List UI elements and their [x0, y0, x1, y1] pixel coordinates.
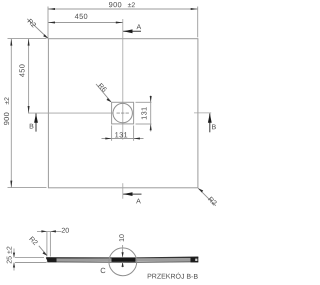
profile drain sump (center dark) [112, 258, 136, 262]
svg-text:10: 10 [119, 234, 126, 242]
horizontal centerline right stub [194, 112, 211, 114]
svg-text:900: 900 [2, 112, 11, 125]
dim 900 top: extension lines [47, 7, 49, 39]
dim 450 left: dimension line [28, 39, 30, 113]
svg-text:A: A [136, 198, 141, 205]
leader R2 section left end [39, 246, 47, 255]
svg-text:450: 450 [17, 64, 26, 77]
svg-text:R2: R2 [27, 236, 38, 247]
leader R2 bottom-right [198, 188, 216, 206]
section arrow A top [123, 30, 141, 32]
profile right foot inner light [195, 259, 197, 261]
svg-text:131: 131 [140, 107, 149, 120]
dim 131 bottom: dimension line [102, 138, 144, 140]
dim 25 +-2 section: extension lines [15, 257, 44, 259]
svg-text:131: 131 [115, 130, 128, 139]
dim 450 left: arrowheads [28, 39, 30, 46]
drain circle [113, 103, 132, 122]
svg-text:±2: ±2 [4, 97, 11, 105]
svg-text:B: B [29, 123, 34, 130]
svg-text:450: 450 [75, 12, 88, 21]
horizontal centerline left segment [28, 112, 113, 114]
SECTION B-B profile top surface line [46, 256, 198, 259]
dim 900 left: arrowheads [10, 39, 12, 46]
profile left foot (thick end) [46, 258, 57, 263]
section arrow B left [35, 114, 37, 132]
svg-text:R2: R2 [26, 18, 37, 29]
svg-text:900: 900 [109, 0, 122, 9]
leader R6 drain corner [96, 84, 111, 102]
dim 900 top: dimension line [48, 8, 198, 10]
profile right foot [191, 257, 199, 262]
dim 20 section: extension lines [46, 232, 48, 257]
dim 900 left: extension lines [8, 38, 47, 40]
svg-text:±2: ±2 [128, 2, 136, 9]
svg-text:B: B [211, 124, 216, 131]
SECTION B-B profile interior [47, 258, 198, 261]
svg-text:C: C [100, 266, 106, 275]
svg-text:20: 20 [61, 228, 69, 235]
leader R2 top-left [27, 19, 47, 38]
dim 131 bottom: extension lines [111, 126, 113, 141]
dim 450 top: dimension line [48, 22, 123, 24]
outer square 900x900 plan view [48, 39, 198, 188]
dim 20 section: arrowheads [41, 230, 47, 232]
dim 900 top: arrowheads [48, 8, 55, 10]
svg-text:R6: R6 [96, 83, 107, 94]
section arrow A bottom [123, 193, 141, 195]
drain recess square 131x131 [112, 102, 134, 124]
dim 10 section: lower line and arrow [122, 262, 124, 267]
dim 25 +-2 section: dimension line and arrows [13, 249, 15, 258]
svg-text:25 ±2: 25 ±2 [7, 246, 14, 264]
section arrow B right [209, 113, 211, 132]
dim 131 right: arrowheads [150, 96, 152, 102]
SECTION B-B profile bottom surface line [47, 261, 198, 264]
svg-text:A: A [136, 24, 141, 31]
dim 450 top: arrowheads [48, 22, 55, 24]
dim 131 right: dimension line [150, 96, 152, 132]
dim 131 right: extension lines [136, 101, 152, 103]
center cross dash [117, 112, 130, 114]
svg-text:PRZEKRÓJ B-B: PRZEKRÓJ B-B [147, 271, 198, 280]
dim 10 section: upper line and arrow [122, 245, 124, 257]
detail circle C [109, 248, 137, 276]
dim 20 section: dimension line [37, 230, 62, 232]
dim 131 bottom: arrowheads [105, 138, 111, 140]
vertical centerline [122, 19, 124, 140]
dim 900 left: dimension line [10, 39, 12, 188]
